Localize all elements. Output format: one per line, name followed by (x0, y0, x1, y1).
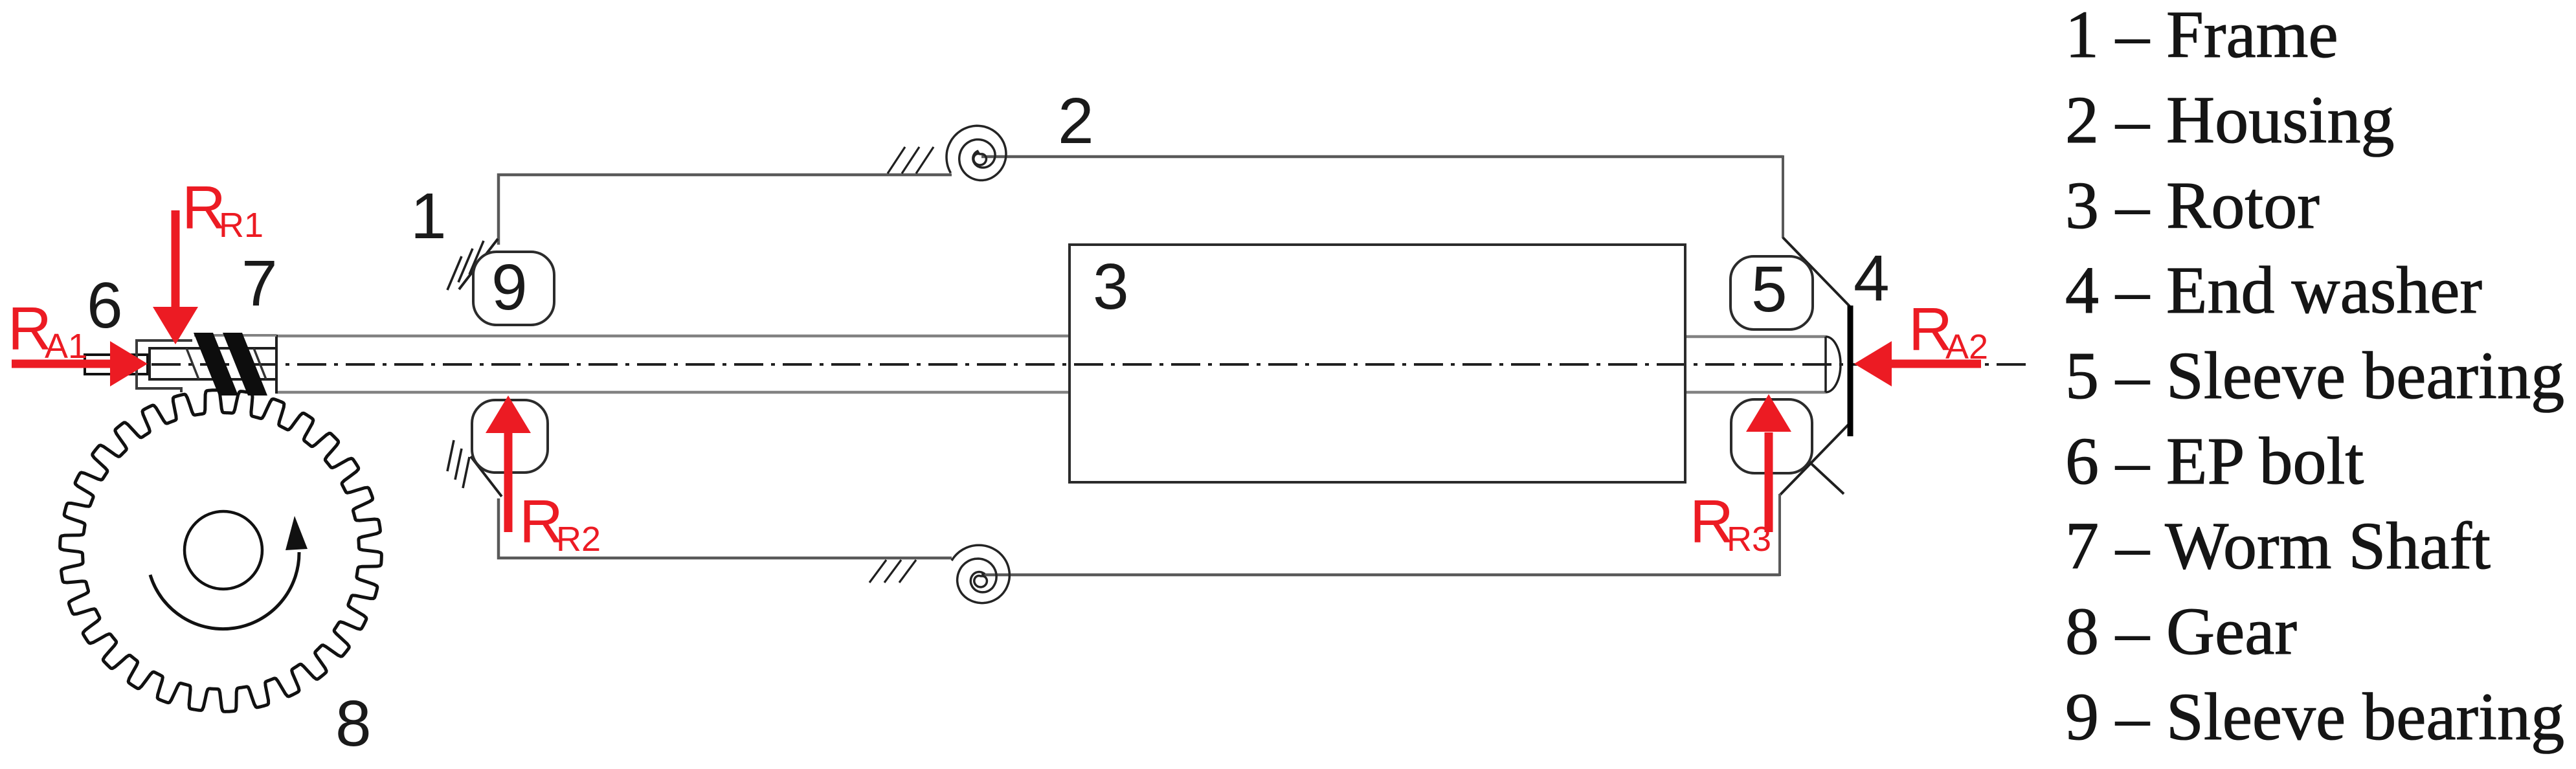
svg-text:7 – Worm Shaft: 7 – Worm Shaft (2065, 509, 2491, 583)
svg-text:7: 7 (241, 247, 278, 320)
svg-text:8 – Gear: 8 – Gear (2065, 594, 2297, 669)
svg-text:6 – EP bolt: 6 – EP bolt (2065, 424, 2364, 498)
svg-text:2: 2 (1058, 85, 1094, 157)
svg-text:2 – Housing: 2 – Housing (2065, 83, 2394, 157)
svg-text:4 – End washer: 4 – End washer (2065, 253, 2482, 328)
svg-text:R1: R1 (219, 206, 263, 245)
svg-text:A1: A1 (45, 327, 87, 366)
svg-text:1 – Frame: 1 – Frame (2065, 0, 2338, 72)
svg-text:9 – Sleeve bearing: 9 – Sleeve bearing (2065, 680, 2564, 754)
svg-text:5: 5 (1751, 253, 1787, 326)
svg-text:9: 9 (491, 251, 528, 324)
svg-text:5 – Sleeve bearing: 5 – Sleeve bearing (2065, 339, 2564, 413)
svg-text:4: 4 (1854, 242, 1890, 315)
svg-text:8: 8 (335, 687, 372, 760)
svg-text:3: 3 (1093, 251, 1129, 323)
svg-text:R3: R3 (1727, 520, 1771, 559)
svg-text:R2: R2 (556, 520, 601, 559)
svg-text:1: 1 (410, 180, 447, 252)
svg-text:6: 6 (87, 269, 123, 342)
svg-text:3 – Rotor: 3 – Rotor (2065, 168, 2320, 243)
svg-text:A2: A2 (1945, 328, 1988, 366)
